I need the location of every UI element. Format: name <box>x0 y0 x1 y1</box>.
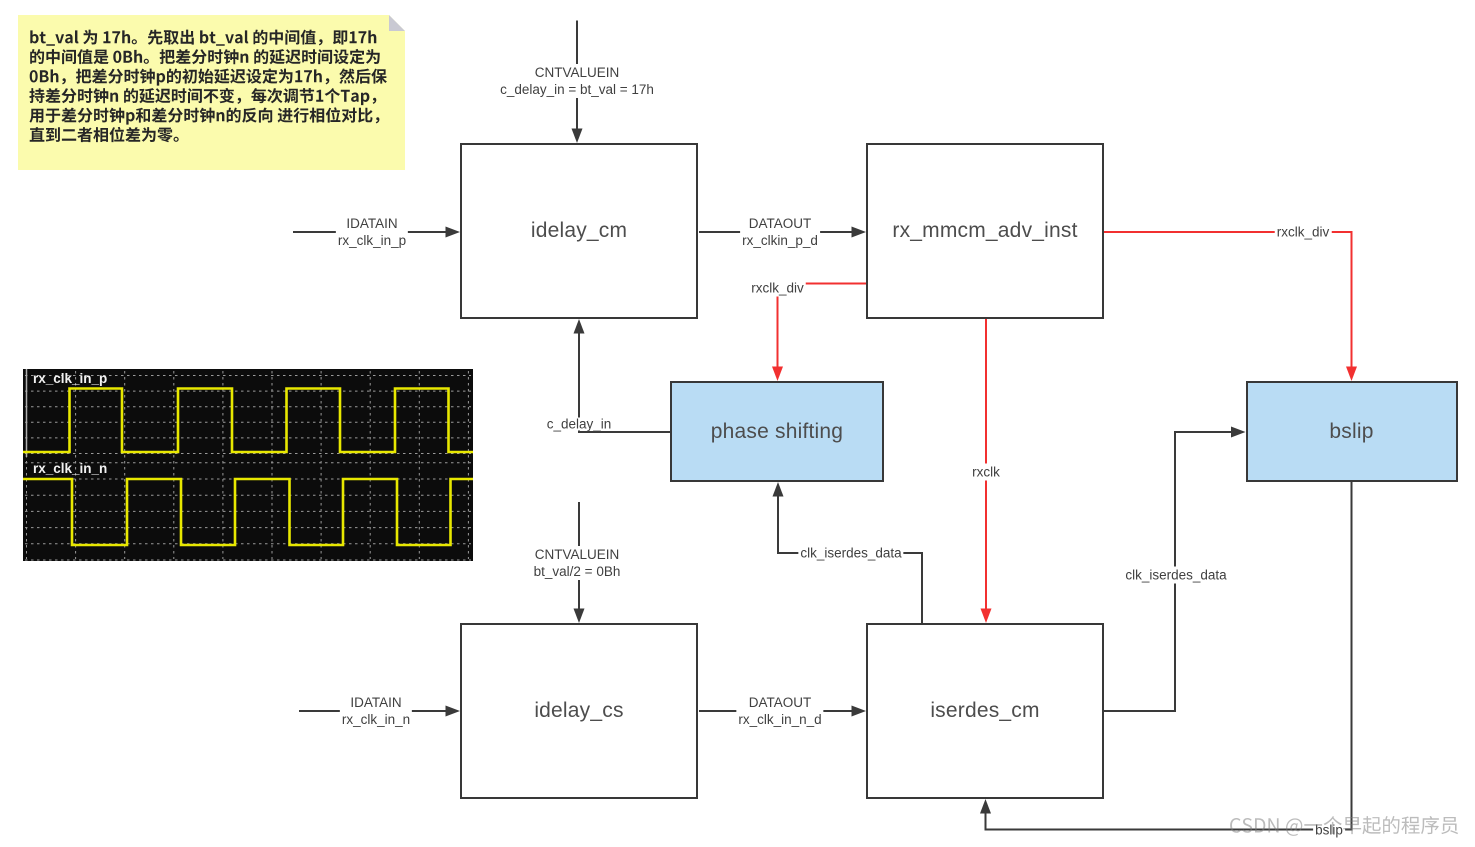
label DATAOUT rx_clkin_p_d <box>740 215 820 249</box>
block idelay_cm <box>460 143 698 319</box>
block phase shifting <box>670 381 884 482</box>
svg-text:rx_clk_in_n: rx_clk_in_n <box>33 461 107 476</box>
wire CNTVALUEIN into idelay_cs top <box>574 502 585 623</box>
wire IDATAIN into idelay_cm left <box>293 227 460 238</box>
waveform trace rx_clk_in_n <box>23 479 473 545</box>
sticky note <box>18 15 405 170</box>
svg-text:rx_clk_in_p: rx_clk_in_p <box>33 371 107 386</box>
label rxclk_div right <box>1275 224 1332 241</box>
wire bslip feedback to iserdes_cm bottom <box>980 482 1352 830</box>
label CNTVALUEIN c_delay_in = bt_val = 17h <box>498 64 656 98</box>
sticky note text <box>18 15 405 170</box>
watermark CSDN @一个早起的程序员 <box>1228 810 1468 844</box>
label clk_iserdes_data left <box>798 545 903 562</box>
wire clk_iserdes_data iserdes_cm to phase shifting <box>773 482 923 623</box>
block idelay_cs <box>460 623 698 799</box>
label IDATAIN rx_clk_in_p <box>336 215 408 249</box>
block bslip <box>1246 381 1458 482</box>
wire DATAOUT idelay_cs to iserdes_cm <box>699 706 866 717</box>
wire rxclk rx_mmcm_adv_inst to iserdes_cm top <box>981 319 992 623</box>
wire clk_iserdes_data iserdes_cm to bslip <box>1104 427 1246 712</box>
block rx_mmcm_adv_inst <box>866 143 1104 319</box>
label bslip wire <box>1313 822 1345 839</box>
waveform grid <box>27 371 469 559</box>
waveform screenshot rx_clk_in_p / rx_clk_in_n <box>23 369 473 561</box>
label c_delay_in <box>545 417 614 430</box>
label clk_iserdes_data right <box>1123 566 1228 583</box>
wire CNTVALUEIN into idelay_cm top <box>572 21 583 144</box>
waveform cursor line <box>26 369 28 457</box>
label CNTVALUEIN bt_val/2 = 0Bh <box>532 546 623 580</box>
waveform trace rx_clk_in_p <box>23 389 473 453</box>
label IDATAIN rx_clk_in_n <box>340 694 412 728</box>
label rxclk <box>970 463 1002 480</box>
label DATAOUT rx_clk_in_n_d <box>736 694 823 728</box>
wire DATAOUT idelay_cm to rx_mmcm_adv_inst <box>699 227 866 238</box>
wire rxclk_div rx_mmcm_adv_inst to phase shifting top <box>772 284 866 382</box>
wire rxclk_div rx_mmcm_adv_inst to bslip top <box>1104 232 1357 381</box>
label rxclk_div left <box>749 280 806 297</box>
wire c_delay_in phase shifting to idelay_cm bottom <box>574 319 671 432</box>
wire IDATAIN into idelay_cs left <box>299 706 460 717</box>
block iserdes_cm <box>866 623 1104 799</box>
sticky note folded corner <box>389 15 405 31</box>
